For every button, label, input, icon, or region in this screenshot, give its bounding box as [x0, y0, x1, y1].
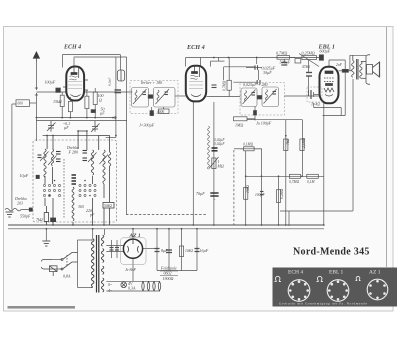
svg-text:pF: pF	[89, 212, 95, 217]
svg-text:50kΩ: 50kΩ	[104, 204, 112, 208]
svg-text:ECH 4: ECH 4	[63, 45, 81, 51]
svg-text:MΩ: MΩ	[217, 164, 224, 169]
svg-text:500µF: 500µF	[280, 60, 291, 65]
svg-text:8µF: 8µF	[161, 248, 168, 253]
svg-text:203: 203	[17, 201, 23, 206]
svg-text:70µF: 70µF	[196, 191, 205, 196]
svg-text:Gedruckt mit Genehmigung der F: Gedruckt mit Genehmigung der Fa. Nordmen…	[279, 301, 368, 305]
svg-text:10kΩ: 10kΩ	[185, 249, 193, 253]
svg-text:ECH 4: ECH 4	[288, 270, 303, 276]
svg-text:µF: µF	[64, 125, 69, 130]
svg-text:30µF: 30µF	[263, 70, 272, 75]
svg-text:Je 8nF: Je 8nF	[125, 267, 137, 272]
svg-text:Ja 100pF: Ja 100pF	[256, 121, 272, 126]
svg-text:F 280: F 280	[68, 150, 78, 155]
svg-text:15kΩ: 15kΩ	[53, 99, 62, 104]
svg-text:4000: 4000	[157, 110, 164, 114]
svg-text:T=4Ω: T=4Ω	[311, 103, 320, 107]
svg-text:7kΩ: 7kΩ	[286, 139, 290, 145]
svg-text:Ω: Ω	[99, 98, 102, 103]
svg-text:7kΩ: 7kΩ	[36, 217, 43, 222]
svg-text:J=300µF: J=300µF	[139, 123, 155, 128]
svg-text:600: 600	[18, 102, 24, 106]
svg-text:2nF: 2nF	[336, 63, 343, 67]
svg-text:1900Ω: 1900Ω	[163, 276, 174, 281]
svg-text:47kΩ: 47kΩ	[302, 65, 310, 69]
svg-text:16µF: 16µF	[200, 248, 209, 253]
svg-text:10kΩ: 10kΩ	[246, 185, 250, 193]
svg-text:10µF: 10µF	[20, 173, 29, 178]
svg-text:ECH 4: ECH 4	[186, 44, 205, 51]
svg-text:EBL 1: EBL 1	[329, 270, 344, 276]
svg-text:Verlier + 180: Verlier + 180	[141, 80, 163, 85]
svg-text:µF: µF	[100, 111, 105, 116]
svg-text:100µF: 100µF	[45, 80, 56, 85]
svg-text:550pF: 550pF	[20, 214, 31, 219]
svg-text:600µF: 600µF	[320, 49, 331, 54]
svg-text:365: 365	[78, 204, 84, 209]
svg-text:AZ 1: AZ 1	[129, 233, 141, 239]
svg-text:1MΩ: 1MΩ	[235, 123, 243, 128]
svg-text:+: +	[213, 197, 216, 202]
svg-text:100µF: 100µF	[255, 193, 265, 197]
svg-text:Nord-Mende 345: Nord-Mende 345	[293, 247, 370, 258]
svg-text:AZ 1: AZ 1	[369, 270, 381, 276]
